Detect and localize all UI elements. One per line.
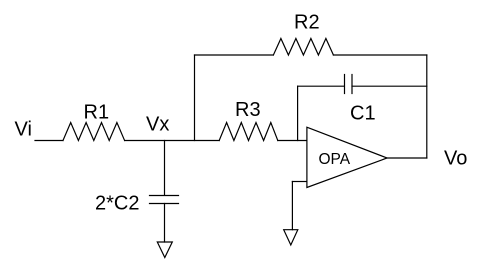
ground (below 2*C2) xyxy=(157,242,172,258)
wire right vertical (R2/C1 to output) xyxy=(426,55,428,158)
wire op-amp output to Vo xyxy=(387,157,427,159)
svg-text:Vx: Vx xyxy=(146,114,169,136)
svg-text:C1: C1 xyxy=(350,103,376,125)
svg-text:OPA: OPA xyxy=(319,151,351,168)
resistor R1 xyxy=(63,123,125,141)
wire R2 to right vertical xyxy=(333,54,426,56)
svg-text:Vi: Vi xyxy=(15,119,32,141)
ground (op-amp non-inverting input) xyxy=(284,230,298,245)
wire Vi to R1 xyxy=(35,140,63,142)
wire inverting input up to C1 xyxy=(297,86,299,140)
capacitor 2*C2 xyxy=(150,196,179,204)
wire C1 right lead xyxy=(352,85,427,87)
wire R1 to R3 (through node Vx) xyxy=(125,140,220,142)
wire capacitor to ground xyxy=(164,204,166,243)
wire non-inverting input to ground xyxy=(291,182,293,230)
wire R3 to op-amp inverting input xyxy=(278,140,307,142)
resistor R3 xyxy=(219,123,278,141)
svg-text:2*C2: 2*C2 xyxy=(95,193,139,215)
wire C1 left lead xyxy=(298,85,344,87)
resistor R2 xyxy=(273,39,333,56)
wire node Vx down to capacitor 2*C2 xyxy=(164,141,166,196)
wire riser to R2 xyxy=(195,54,274,56)
wire op-amp non-inverting input stub xyxy=(292,181,307,183)
svg-text:R2: R2 xyxy=(294,12,320,34)
svg-text:Vo: Vo xyxy=(444,148,467,170)
svg-text:R1: R1 xyxy=(84,102,110,124)
capacitor C1 xyxy=(345,75,353,94)
svg-text:R3: R3 xyxy=(235,99,261,121)
wire node to R2 (vertical riser) xyxy=(194,55,196,141)
op-amp U1 triangle xyxy=(307,127,387,187)
